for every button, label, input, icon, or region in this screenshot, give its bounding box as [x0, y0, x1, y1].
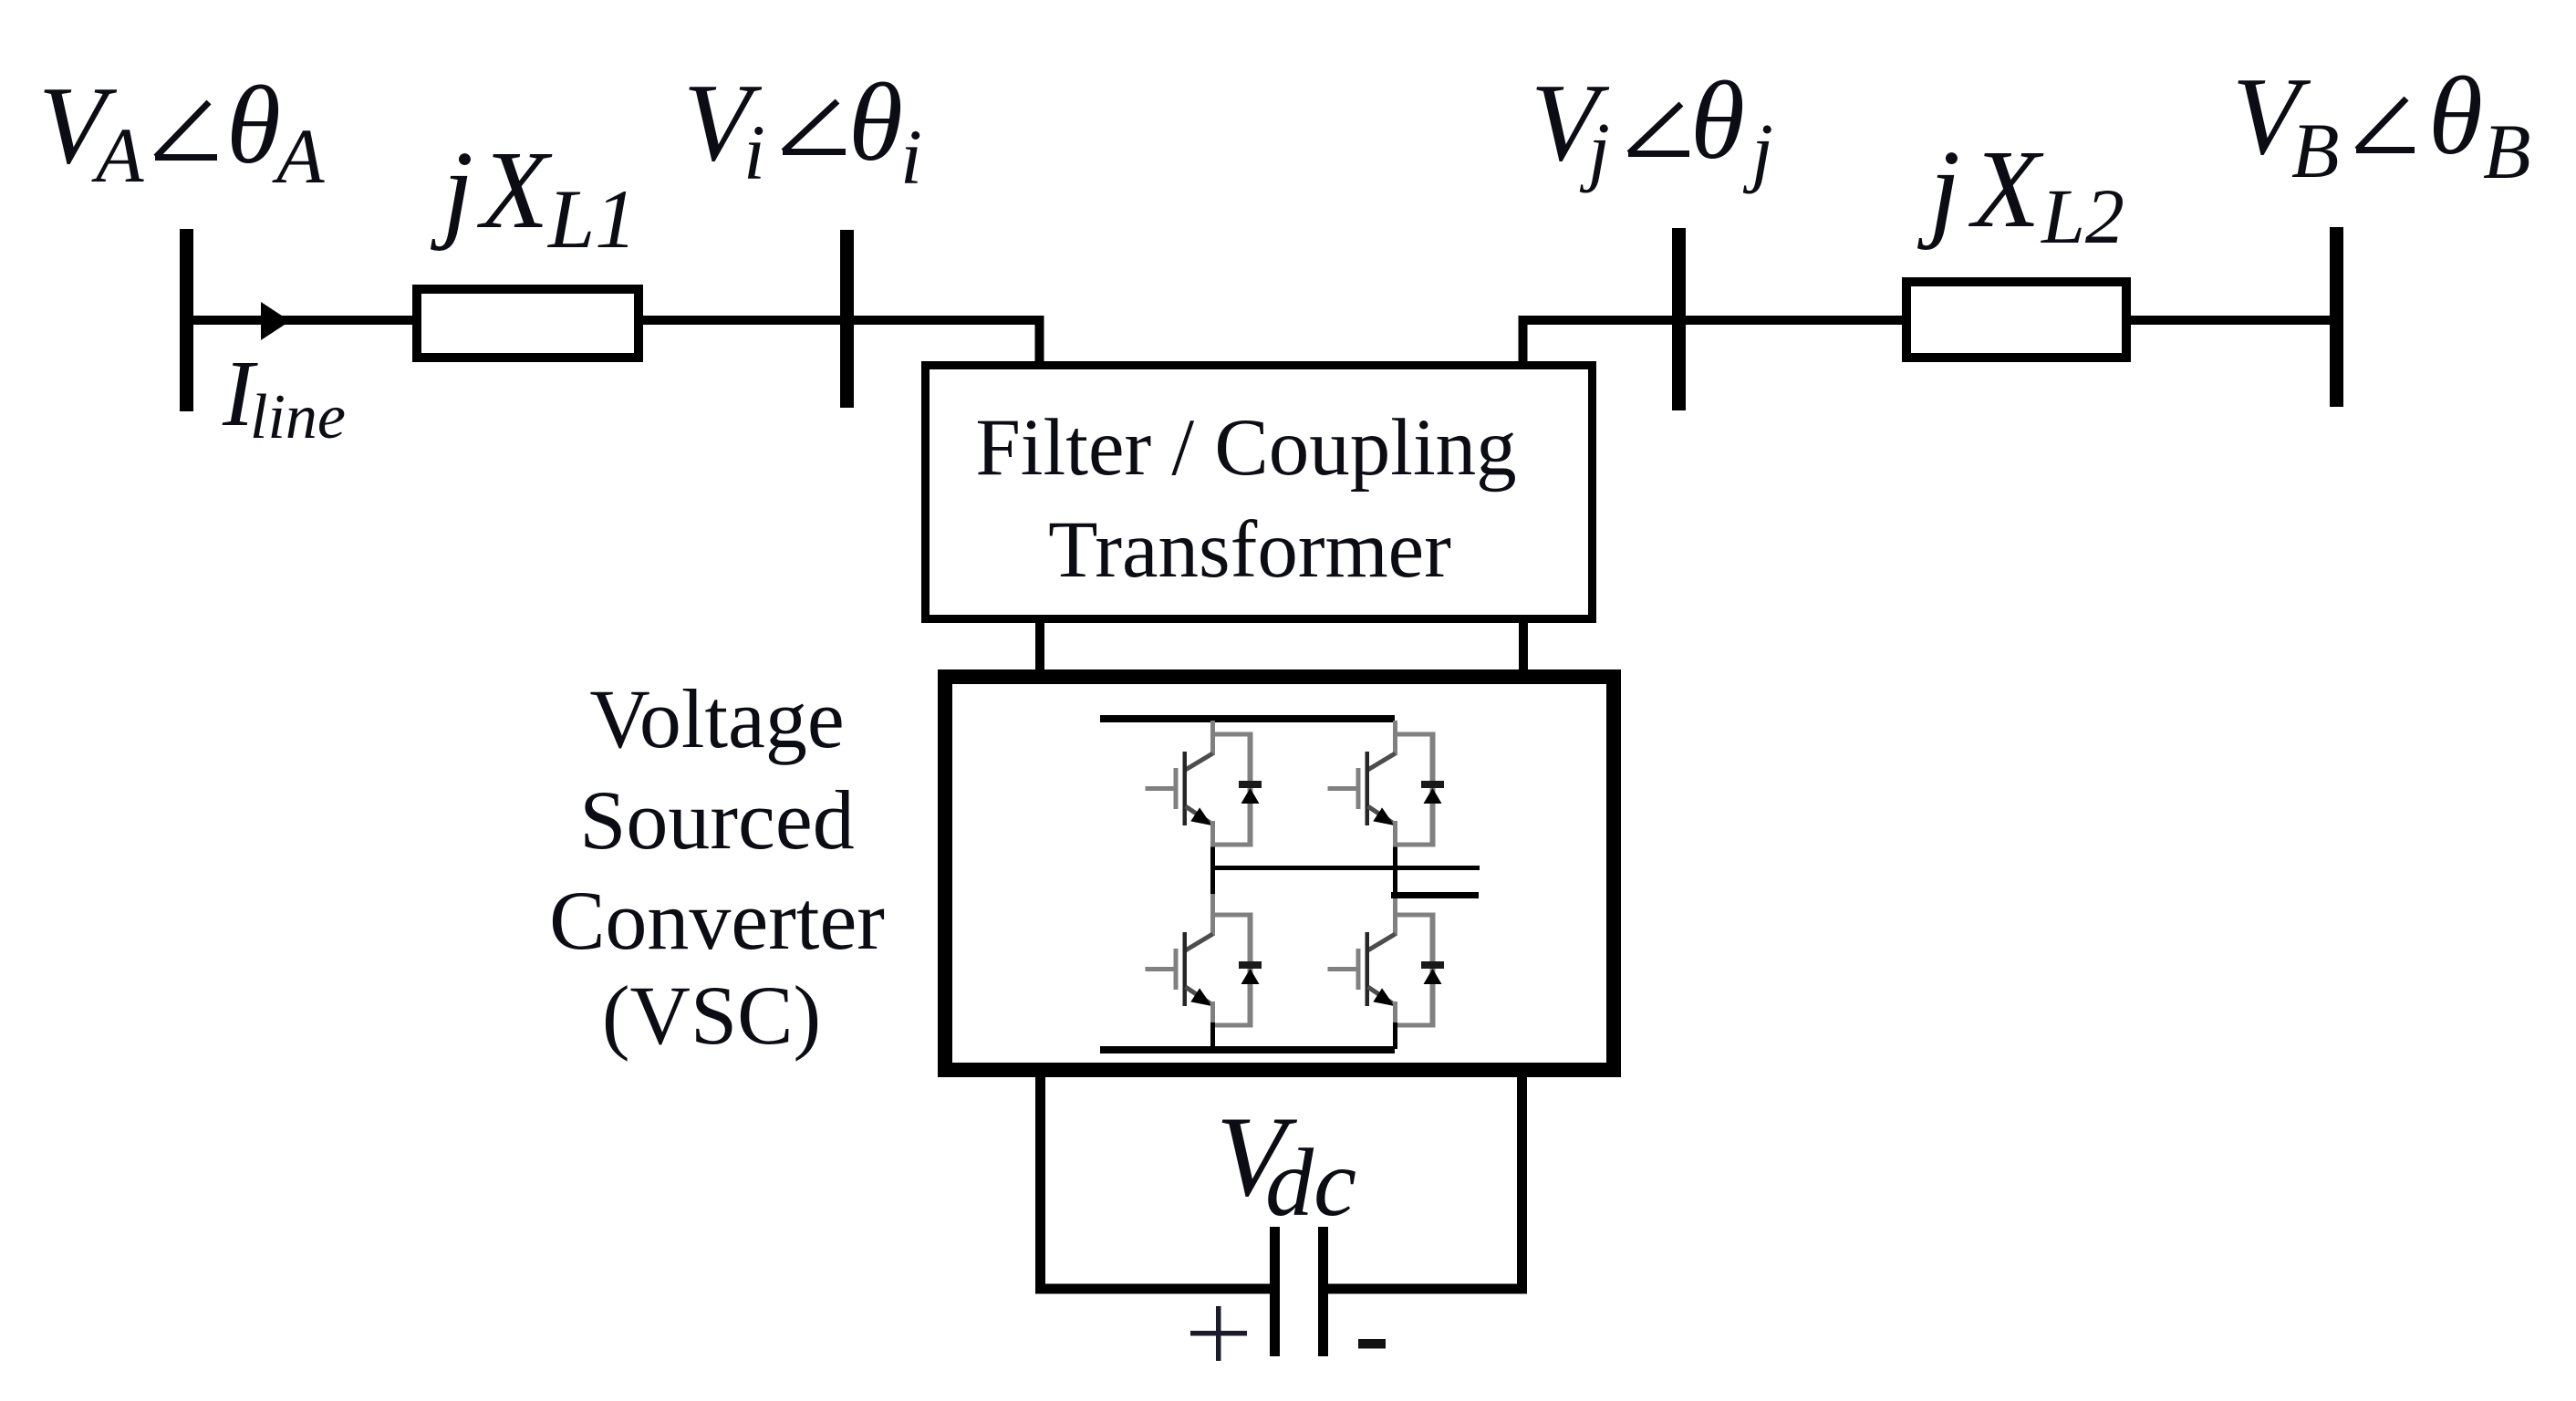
transistor Q2 [1328, 721, 1436, 847]
wire transformer to VSC right [1519, 623, 1528, 669]
svg-text:L2: L2 [2040, 172, 2124, 260]
bus j (V_j angle theta_j) [1672, 228, 1686, 410]
label V_j angle theta_j [1531, 59, 1773, 194]
IGBT module Q3 bottom-left [1146, 894, 1262, 1028]
wire XL1 to bus i [643, 316, 840, 325]
wire leg A emitter to DC- rail [1210, 1022, 1215, 1049]
svg-text:Converter: Converter [549, 874, 885, 967]
label I_line [222, 341, 346, 452]
mid rail / capacitor top plate [1212, 866, 1480, 870]
wire VSC to dc source left [1041, 1077, 1271, 1289]
svg-text:A: A [272, 112, 325, 200]
wire leg A mid (black) [1210, 842, 1215, 894]
svg-text:θ: θ [226, 64, 281, 187]
label V_i angle theta_i [683, 61, 922, 201]
wire leg B emitter to DC- rail [1393, 1022, 1397, 1049]
svg-text:Sourced: Sourced [579, 773, 854, 867]
svg-text:j: j [1916, 128, 1960, 251]
reactor XL1 [417, 289, 639, 358]
wire bus i down to transformer [854, 320, 1040, 365]
label V_B angle theta_B [2232, 55, 2531, 195]
IGBT module Q1 top-left [1146, 721, 1262, 847]
svg-text:θ: θ [848, 61, 903, 184]
diode D1 [1239, 734, 1262, 845]
label V_dc [1216, 1094, 1356, 1236]
diode D4 [1421, 915, 1444, 1025]
wire transformer up to bus j [1523, 320, 1673, 365]
dc-link capacitor bottom plate [1391, 892, 1479, 898]
svg-text:Transformer: Transformer [1048, 505, 1451, 595]
IGBT module Q4 bottom-right [1328, 898, 1445, 1028]
DC- rail [1100, 1046, 1395, 1053]
label V_A angle theta_A [38, 64, 325, 200]
transistor Q4 [1328, 898, 1436, 1028]
diode D2 [1421, 734, 1444, 845]
wire bus A to XL1 [193, 316, 412, 325]
label jX_L1 [430, 129, 637, 265]
svg-text:X: X [476, 129, 553, 252]
svg-text:B: B [2291, 107, 2340, 194]
minus sign [1358, 1339, 1386, 1349]
label Voltage Sourced Converter (VSC) [549, 672, 885, 1062]
wire bus j to XL2 [1686, 316, 1902, 325]
plus sign [1190, 1306, 1247, 1361]
dc source positive plate [1270, 1227, 1280, 1356]
current arrow I_line [261, 302, 290, 340]
svg-text:j: j [1742, 107, 1773, 194]
svg-text:θ: θ [1690, 59, 1745, 182]
bus A (V_A angle theta_A) [180, 229, 193, 411]
svg-text:i: i [743, 109, 765, 196]
IGBT module Q2 top-right [1328, 721, 1445, 847]
converter U1 (VSC) box [945, 677, 1614, 1070]
transistor Q1 [1146, 721, 1253, 847]
svg-text:B: B [2483, 108, 2531, 195]
reactor XL2 [1906, 282, 2126, 358]
svg-text:A: A [91, 111, 144, 199]
svg-text:X: X [1968, 128, 2044, 251]
DC+ rail [1100, 715, 1395, 722]
svg-text:(VSC): (VSC) [602, 969, 821, 1062]
label jX_L2 [1916, 128, 2124, 260]
wire leg B mid (black) [1393, 842, 1397, 898]
svg-text:L1: L1 [546, 172, 637, 265]
transformer box (Filter / Coupling Transformer) [926, 366, 1593, 619]
diode D3 [1239, 915, 1262, 1025]
dc source negative plate [1318, 1227, 1328, 1356]
wire VSC to dc source right [1328, 1077, 1522, 1289]
svg-text:θ: θ [2428, 55, 2483, 178]
svg-text:j: j [430, 129, 473, 252]
bus B (V_B angle theta_B) [2330, 227, 2343, 407]
bus i (V_i angle theta_i) [840, 230, 854, 408]
svg-text:line: line [250, 382, 346, 452]
svg-text:i: i [900, 113, 922, 201]
svg-text:Filter / Coupling: Filter / Coupling [975, 403, 1516, 493]
transistor Q3 [1146, 894, 1253, 1028]
svg-text:dc: dc [1265, 1129, 1356, 1236]
wire XL2 to bus B [2131, 316, 2330, 325]
svg-text:Voltage: Voltage [589, 672, 844, 765]
label Filter / Coupling Transformer [975, 403, 1516, 595]
wire transformer to VSC left [1035, 623, 1044, 669]
